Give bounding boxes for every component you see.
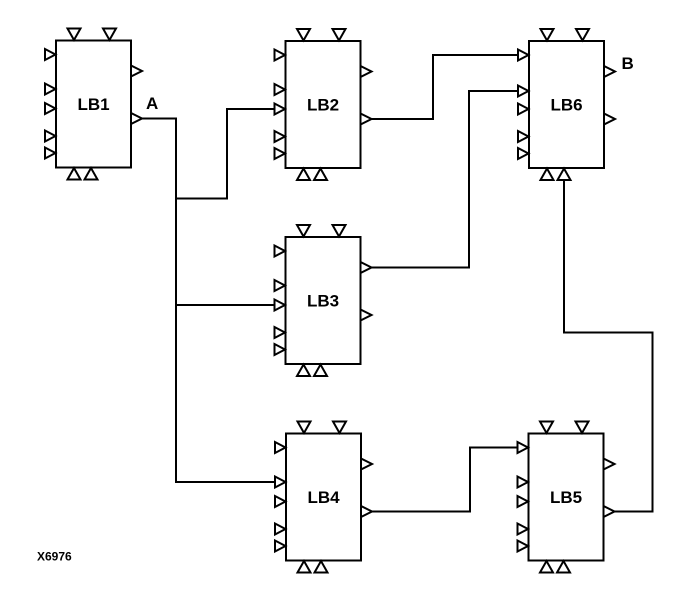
LB4 top pin 2: [333, 422, 346, 434]
logic block LB4: [275, 422, 372, 573]
LB6 left input pin 2: [518, 86, 529, 97]
LB6 left input pin 4: [518, 131, 529, 142]
LB3 body: [286, 237, 361, 364]
svg-text:A: A: [146, 94, 158, 113]
LB3 top pin 2: [333, 225, 346, 237]
LB5 left input pin 4: [518, 524, 529, 535]
wire: LB3 output 1 up to LB6 input 2: [372, 91, 519, 268]
LB2 left input pin 1: [275, 50, 286, 61]
svg-text:LB2: LB2: [307, 95, 339, 114]
LB1 body: [56, 41, 131, 168]
LB2 bottom pin 2: [314, 169, 327, 181]
LB3 left input pin 3: [275, 300, 286, 311]
LB3 left input pin 1: [275, 246, 286, 257]
LB6 top pin 1: [541, 29, 554, 41]
LB3 left input pin 5: [275, 344, 286, 355]
logic block LB3: [275, 225, 372, 376]
LB1 left input pin 3: [45, 103, 56, 114]
LB4 left input pin 3: [275, 496, 286, 507]
LB2 top pin 2: [333, 29, 346, 41]
LB5 body: [529, 434, 604, 561]
LB6 body: [529, 41, 604, 168]
wire: LB4 output 2 up to LB5 input 1: [372, 448, 518, 512]
svg-text:LB3: LB3: [307, 291, 339, 310]
LB6 bottom pin 1: [541, 169, 554, 181]
LB3 top pin 1: [297, 225, 310, 237]
LB4 body: [286, 434, 361, 561]
LB2 left input pin 2: [275, 84, 286, 95]
LB5 left input pin 3: [518, 496, 529, 507]
LB2 left input pin 3: [275, 104, 286, 115]
logic block LB1: [45, 29, 142, 180]
LB6 left input pin 1: [518, 50, 529, 61]
wire: LB5 output 2 up around to LB6 bottom pin 2: [564, 181, 653, 512]
LB4 bottom pin 2: [315, 561, 328, 573]
LB4 top pin 1: [298, 422, 311, 434]
LB3 right output pin 1: [361, 262, 372, 273]
LB3 bottom pin 1: [297, 365, 310, 377]
LB5 left input pin 5: [518, 541, 529, 552]
LB2 body: [286, 41, 361, 168]
LB4 left input pin 1: [275, 442, 286, 453]
LB2 left input pin 4: [275, 131, 286, 142]
LB6 right output pin 2: [604, 114, 615, 125]
LB4 right output pin 2: [361, 506, 372, 517]
LB4 left input pin 4: [275, 524, 286, 535]
LB6 left input pin 3: [518, 104, 529, 115]
svg-text:LB4: LB4: [307, 488, 340, 507]
LB1 top pin 1: [68, 29, 81, 41]
LB1 right output pin 1: [131, 66, 142, 77]
LB4 bottom pin 1: [298, 561, 311, 573]
LB1 right output pin 2: [131, 113, 142, 124]
svg-text:X6976: X6976: [37, 550, 72, 564]
LB6 right output pin 1: [604, 66, 615, 77]
LB5 left input pin 1: [518, 442, 529, 453]
LB3 left input pin 4: [275, 327, 286, 338]
LB5 bottom pin 2: [557, 561, 570, 573]
LB2 top pin 1: [297, 29, 310, 41]
LB2 right output pin 2: [361, 114, 372, 125]
wire: LB2 output 2 up to LB6 input 1: [372, 55, 519, 119]
LB3 right output pin 2: [361, 310, 372, 321]
LB1 bottom pin 1: [68, 168, 81, 180]
LB5 right output pin 1: [604, 459, 615, 470]
wire net A branch: trunk to riser up into LB2 input 3: [176, 109, 275, 199]
LB1 left input pin 1: [45, 49, 56, 60]
svg-text:B: B: [622, 54, 634, 73]
logic block LB5: [518, 422, 615, 573]
LB5 left input pin 2: [518, 477, 529, 488]
svg-text:LB6: LB6: [550, 95, 582, 114]
LB2 left input pin 5: [275, 148, 286, 159]
LB6 top pin 2: [576, 29, 589, 41]
LB4 left input pin 5: [275, 541, 286, 552]
LB1 top pin 2: [103, 29, 116, 41]
wire net A: LB1 output to vertical trunk down to LB4 input 2: [142, 119, 275, 483]
LB3 left input pin 2: [275, 280, 286, 291]
logic block LB2: [275, 29, 372, 180]
LB1 left input pin 2: [45, 84, 56, 95]
LB5 right output pin 2: [604, 506, 615, 517]
LB1 left input pin 4: [45, 131, 56, 142]
LB2 bottom pin 1: [297, 169, 310, 181]
LB1 left input pin 5: [45, 148, 56, 159]
LB3 bottom pin 2: [314, 365, 327, 377]
LB5 top pin 1: [540, 422, 553, 434]
LB4 left input pin 2: [275, 477, 286, 488]
LB5 bottom pin 1: [540, 561, 553, 573]
wire net A branch: trunk to LB3 input 3: [176, 304, 275, 306]
LB6 left input pin 5: [518, 148, 529, 159]
LB4 right output pin 1: [361, 459, 372, 470]
svg-text:LB1: LB1: [77, 95, 109, 114]
LB1 bottom pin 2: [85, 168, 98, 180]
LB6 bottom pin 2: [558, 169, 571, 181]
svg-text:LB5: LB5: [550, 488, 582, 507]
LB2 right output pin 1: [361, 66, 372, 77]
logic block LB6: [518, 29, 615, 180]
LB5 top pin 2: [576, 422, 589, 434]
